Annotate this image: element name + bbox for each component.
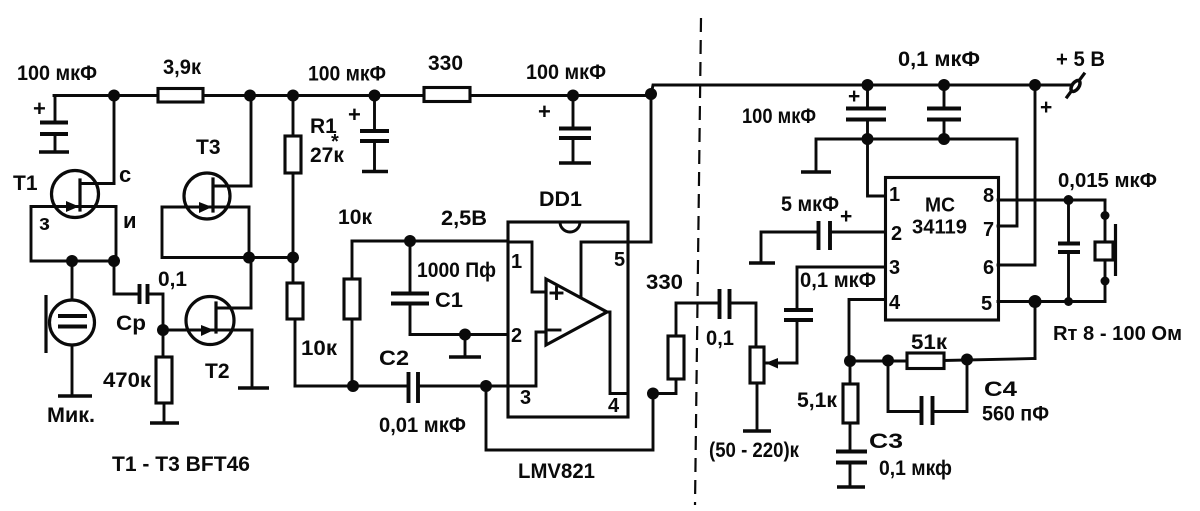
svg-text:100 мкФ: 100 мкФ — [17, 62, 97, 85]
wire T2 source to ground — [238, 330, 269, 388]
microphone Mik — [46, 261, 95, 427]
node junction T2 gate / 470k — [157, 324, 169, 336]
node junction C1 ground tap — [449, 329, 481, 358]
svg-text:0,1: 0,1 — [158, 268, 187, 291]
svg-text:Ср: Ср — [116, 312, 146, 335]
capacitor 5 mkF pin2 — [749, 193, 885, 263]
wire feedback row right — [944, 359, 1035, 361]
svg-text:470к: 470к — [103, 369, 152, 392]
wire pin4 to feedback row — [849, 300, 885, 362]
svg-text:34119: 34119 — [912, 217, 967, 239]
svg-text:100 мкФ: 100 мкФ — [742, 105, 816, 128]
svg-text:0,015 мкФ: 0,015 мкФ — [1058, 170, 1157, 192]
resistor 330 top — [424, 52, 470, 102]
speaker Rt telephone — [1053, 200, 1182, 345]
svg-text:3: 3 — [889, 257, 900, 279]
svg-text:5: 5 — [614, 249, 625, 271]
wire decoupling rail 2 — [801, 139, 1017, 172]
terminal +5V arrow — [1040, 48, 1105, 119]
svg-text:LMV821: LMV821 — [518, 460, 595, 483]
IC MC34119 box — [886, 178, 999, 321]
transistor T2 — [163, 297, 252, 384]
svg-text:1000 Пф: 1000 Пф — [417, 259, 496, 282]
svg-text:*: * — [331, 131, 339, 153]
node junction +5V vertical on rail — [1029, 79, 1041, 91]
svg-text:+: + — [538, 99, 551, 124]
node junction C4 left — [882, 355, 894, 367]
node junction rail2 at 0,1mkF — [938, 133, 950, 145]
svg-text:DD1: DD1 — [539, 188, 582, 211]
resistor 10k lower — [287, 283, 338, 386]
svg-text:С2: С2 — [379, 347, 409, 370]
wire bottom run to C2 — [295, 385, 407, 388]
label T1 - T3 BFT46 — [112, 453, 250, 476]
svg-text:7: 7 — [983, 219, 994, 241]
transistor T3 — [162, 136, 251, 219]
wire pin1 to rail2 — [868, 139, 886, 196]
wire pin8 run — [998, 199, 1105, 202]
node junction source at T1 box — [108, 255, 120, 267]
node junction 0,015 top — [1064, 195, 1074, 205]
svg-text:и: и — [123, 208, 137, 233]
resistor 5,1k — [797, 361, 858, 452]
svg-text:+: + — [348, 102, 361, 127]
svg-text:Rт 8 - 100 Ом: Rт 8 - 100 Ом — [1053, 323, 1182, 345]
svg-text:МС: МС — [925, 195, 955, 217]
op-amp DD1 internals — [508, 242, 651, 417]
capacitor C1 1000 pF — [391, 241, 508, 335]
capacitor 100 mkF top-left — [17, 62, 97, 152]
node junction 0,015 bottom — [1064, 297, 1073, 306]
svg-text:8: 8 — [983, 185, 994, 207]
svg-text:4: 4 — [608, 395, 620, 417]
wire DD1 supply drop — [650, 95, 653, 242]
capacitor 0,015 mkF — [1058, 170, 1157, 302]
capacitor Cp 0,1 — [116, 268, 187, 335]
svg-text:+: + — [848, 85, 860, 108]
node junction T1 drain on rail — [108, 90, 120, 102]
svg-text:3,9к: 3,9к — [163, 56, 201, 79]
node junction 100mkF right on rail — [862, 79, 874, 91]
node junction 0,1mkF on rail — [938, 79, 950, 91]
svg-text:+: + — [1040, 96, 1052, 119]
transistor T1 — [13, 162, 137, 235]
svg-text:Т1 - Т3 BFT46: Т1 - Т3 BFT46 — [112, 453, 250, 476]
resistor 3,9k — [158, 56, 203, 102]
wire T2 drain up to T3 source line — [250, 258, 253, 309]
svg-text:330: 330 — [646, 271, 683, 294]
svg-text:5 мкФ: 5 мкФ — [781, 193, 839, 216]
op-amp DD1 box — [508, 188, 628, 417]
svg-text:3: 3 — [520, 387, 531, 409]
svg-text:+ 5 В: + 5 В — [1056, 48, 1105, 71]
wire pin3 run — [797, 266, 885, 269]
svg-text:51к: 51к — [911, 331, 948, 354]
svg-text:+: + — [33, 96, 46, 121]
wire top supply rail — [54, 85, 1071, 96]
svg-text:С4: С4 — [984, 378, 1017, 401]
svg-text:1: 1 — [511, 251, 522, 273]
capacitor C4 560 pF — [888, 360, 1049, 426]
wire pin5 to feedback row — [1034, 302, 1037, 359]
svg-text:100 мкФ: 100 мкФ — [526, 61, 606, 84]
resistor 330 output — [646, 271, 718, 394]
capacitor 100 mkF right — [742, 85, 886, 139]
svg-text:2: 2 — [511, 325, 522, 347]
svg-text:560 пФ: 560 пФ — [982, 403, 1049, 426]
resistor 51k — [907, 331, 948, 369]
wire pin7 to rail2 — [998, 139, 1017, 226]
node junction cap tap on rail — [369, 90, 381, 102]
capacitor C3 0,1 mkf — [836, 430, 952, 487]
node junction C2 right / feedback — [480, 380, 492, 392]
wire T1 drain to rail — [113, 96, 116, 184]
wire T1 source to Cp — [114, 261, 138, 294]
node junction rail2 at 100mkF — [862, 133, 874, 145]
svg-text:0,1 мкФ: 0,1 мкФ — [800, 269, 876, 292]
node junction T2 drain at T3 box — [243, 252, 255, 264]
svg-text:330: 330 — [428, 52, 463, 75]
svg-text:10к: 10к — [338, 206, 372, 229]
svg-text:27к: 27к — [310, 144, 344, 167]
node junction pin5 feedback — [1029, 295, 1042, 308]
node junction 5,1k top — [844, 355, 856, 367]
node junction DD1 output — [647, 388, 659, 400]
capacitor 100 mkF mid-left — [308, 63, 389, 172]
node junction C4 right — [961, 354, 973, 366]
svg-text:0,1 мкФ: 0,1 мкФ — [898, 48, 980, 71]
svg-text:Т2: Т2 — [205, 360, 230, 383]
divider dashed line — [695, 18, 701, 505]
wire feedback row left — [849, 360, 908, 363]
capacitor C2 0,01 mkF — [379, 347, 508, 437]
svg-text:Мик.: Мик. — [47, 404, 95, 427]
node junction T3 drain on rail — [244, 90, 256, 102]
potentiometer (50-220)k — [709, 347, 799, 462]
wire T3 gate-source loop box — [162, 207, 293, 258]
svg-text:0,01 мкФ: 0,01 мкФ — [379, 414, 466, 437]
capacitor 0,1 mkF wiper — [767, 267, 876, 363]
label LMV821 — [518, 460, 595, 483]
svg-text:з: з — [39, 210, 50, 235]
svg-text:1: 1 — [889, 184, 900, 206]
node junction R1 bottom — [287, 252, 299, 264]
svg-text:2: 2 — [891, 223, 902, 245]
svg-text:6: 6 — [983, 257, 994, 279]
wire DD1 feedback loop — [486, 386, 653, 450]
svg-text:4: 4 — [889, 292, 901, 314]
svg-text:10к: 10к — [301, 337, 338, 360]
wire pin6 to +5V — [998, 85, 1035, 265]
node junction C1 top — [404, 235, 416, 247]
capacitor 100 mkF near DD1 — [526, 61, 606, 163]
node junction R1 top on rail — [287, 90, 299, 102]
svg-text:Т3: Т3 — [196, 136, 221, 159]
wire T1 gate-source loop box — [31, 207, 116, 262]
svg-text:0,1 мкф: 0,1 мкф — [879, 457, 952, 480]
svg-text:(50 - 220)к: (50 - 220)к — [709, 439, 799, 462]
svg-text:с: с — [119, 162, 131, 187]
capacitor 0,1 coupling — [706, 289, 756, 350]
svg-text:С1: С1 — [435, 289, 463, 312]
node junction mic at T1 box — [66, 255, 78, 267]
wire T3 drain to rail — [250, 96, 253, 187]
capacitor 0,1 mkF top right — [898, 48, 980, 139]
resistor R1 27k — [285, 96, 344, 284]
svg-text:+: + — [840, 205, 852, 228]
node junction DD1 supply on rail — [645, 88, 657, 100]
wire pin5 run — [998, 300, 1105, 303]
svg-text:0,1: 0,1 — [706, 327, 734, 350]
svg-text:С3: С3 — [869, 430, 903, 453]
svg-text:5,1к: 5,1к — [797, 389, 837, 412]
svg-text:2,5В: 2,5В — [441, 207, 487, 230]
node junction 10k upper bottom — [347, 380, 359, 392]
resistor 10k upper — [338, 206, 372, 386]
svg-text:Т1: Т1 — [13, 172, 38, 195]
wire 2,5V reference run — [352, 207, 508, 241]
resistor 470k — [103, 330, 179, 423]
node junction mid cap on rail — [567, 90, 579, 102]
svg-text:5: 5 — [981, 293, 992, 315]
svg-text:100 мкФ: 100 мкФ — [308, 63, 386, 86]
